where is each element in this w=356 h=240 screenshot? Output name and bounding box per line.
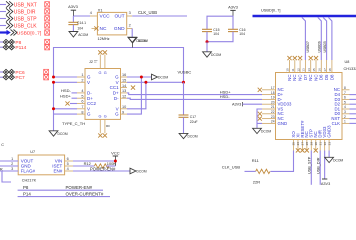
wire C15/C16 bottoms joined	[207, 32, 233, 42]
wire pin7 to vertical	[54, 108, 78, 110]
J2 pin 14 CC1	[110, 84, 127, 90]
resistor R12 100K	[84, 161, 117, 168]
wire bus tap USBD6	[318, 17, 322, 60]
svg-text:D-: D-	[87, 91, 92, 96]
svg-text:D5: D5	[324, 74, 329, 80]
wire	[0, 18, 6, 20]
wire G tie vertical (right)	[127, 77, 141, 114]
svg-text:14: 14	[122, 84, 126, 88]
svg-text:CLK_USB: CLK_USB	[138, 10, 157, 15]
svg-text:15: 15	[122, 79, 126, 83]
U8 top pin stubs	[290, 60, 332, 73]
svg-text:GND3: GND3	[327, 125, 332, 138]
bus stub	[0, 31, 7, 33]
svg-text:DCOM: DCOM	[261, 130, 271, 134]
svg-text:DCOM: DCOM	[333, 159, 343, 163]
port PC6	[0, 69, 49, 76]
wire P14 / OVER-CURRENT#	[18, 196, 110, 198]
U8 right pins	[342, 90, 350, 124]
svg-text:DCOM: DCOM	[158, 76, 168, 80]
ground DCOM (X1)	[128, 37, 147, 43]
svg-text:22uF: 22uF	[190, 120, 198, 124]
wire bus tap USBD8	[328, 17, 332, 60]
svg-text:12: 12	[296, 68, 300, 72]
svg-text:TYPE_C_TH: TYPE_C_TH	[62, 121, 85, 126]
wire CLK_USB to R11	[245, 170, 256, 172]
wire pin8 to vertical, down to ground	[54, 82, 78, 131]
no-connect X marks (U8 top NC pins)	[287, 56, 318, 60]
U7 pin 5 ISET stub	[65, 162, 73, 166]
svg-text:USB_DIR: USB_DIR	[317, 157, 321, 174]
svg-text:C14.1: C14.1	[77, 21, 86, 25]
svg-text:OVER-CURRENT#: OVER-CURRENT#	[66, 192, 104, 197]
svg-text:R: R	[0, 167, 3, 171]
svg-text:12MHz: 12MHz	[98, 37, 110, 41]
svg-text:11: 11	[291, 68, 295, 71]
svg-text:14: 14	[307, 68, 311, 72]
svg-text:3: 3	[11, 167, 13, 171]
U8 top pin names	[287, 74, 334, 81]
svg-text:G: G	[87, 112, 91, 117]
svg-text:17: 17	[271, 86, 275, 90]
port USB_DIR	[0, 8, 50, 15]
wire GND3 down	[328, 151, 330, 158]
ground DCOM (U8 left)	[253, 128, 272, 133]
svg-text:G: G	[115, 75, 119, 80]
port PC7	[0, 75, 49, 82]
svg-text:A3V3: A3V3	[321, 182, 330, 186]
wire HSD- left stub	[72, 92, 78, 94]
wire STP down	[310, 151, 312, 185]
svg-text:5: 5	[67, 162, 69, 166]
svg-text:15: 15	[312, 68, 316, 72]
wire	[0, 25, 6, 27]
svg-text:J2: J2	[89, 60, 93, 64]
wire VIN to VCC	[73, 160, 115, 162]
svg-text:4: 4	[344, 105, 346, 109]
svg-text:22: 22	[271, 110, 275, 114]
junction	[144, 81, 147, 84]
svg-text:USB_CLK: USB_CLK	[14, 24, 37, 30]
wire	[0, 4, 6, 6]
no-connect X on CC1	[131, 86, 135, 90]
wire left G/V tie vertical	[54, 48, 184, 83]
wire bus tap USBD7	[302, 17, 306, 60]
svg-text:23: 23	[271, 115, 275, 119]
ground DCOM (C15/C16)	[203, 52, 222, 57]
ground DCOM (C17)	[179, 133, 198, 138]
svg-text:2: 2	[11, 162, 13, 166]
junction	[52, 107, 55, 110]
wire	[0, 76, 3, 78]
wire U7 pin1 VOUT to edge	[0, 160, 18, 162]
svg-text:D-: D-	[114, 96, 119, 101]
wire G16 to DCOM arrow	[127, 76, 152, 78]
ground ACOM (under C14.1)	[69, 32, 88, 38]
power A3V3 (X1 supply)	[68, 4, 79, 16]
port P114	[0, 45, 50, 52]
ground DCOM (top rail)	[128, 38, 148, 48]
U8 bottom pin names	[291, 120, 332, 138]
svg-text:104: 104	[77, 26, 83, 30]
wire V tie vertical (right)	[127, 82, 146, 109]
svg-text:27: 27	[301, 142, 305, 146]
J2 pin 10 V	[116, 105, 127, 111]
svg-text:16: 16	[318, 68, 322, 72]
svg-text:P114: P114	[15, 45, 26, 51]
U8 top pin numbers	[286, 68, 332, 72]
U8 bottom pin stubs	[294, 140, 330, 151]
svg-text:104: 104	[239, 32, 245, 36]
power VCC	[111, 150, 120, 166]
wire HSD+ (D+ to U8)	[127, 93, 262, 95]
wire pin2 to vertical	[54, 81, 78, 83]
junction	[52, 81, 55, 84]
svg-text:DCOM: DCOM	[138, 39, 148, 43]
svg-text:3: 3	[344, 110, 346, 114]
wire A3V3 rail to C15/C16	[207, 16, 233, 29]
svg-text:V: V	[116, 80, 119, 85]
svg-text:USBD5: USBD5	[323, 41, 327, 52]
svg-text:17: 17	[323, 68, 327, 72]
svg-text:13: 13	[122, 89, 126, 93]
J2 pin 16 G	[115, 73, 127, 79]
svg-text:10: 10	[122, 105, 126, 109]
svg-text:USBD6: USBD6	[318, 41, 322, 52]
svg-text:DCOM: DCOM	[211, 53, 221, 57]
power A3V3 (U8 bottom)	[321, 179, 330, 186]
svg-text:16: 16	[122, 73, 126, 77]
J2 pin 8 G	[77, 110, 91, 116]
svg-text:USB_NXT: USB_NXT	[14, 3, 37, 9]
port USB_STP	[0, 15, 50, 22]
svg-text:3: 3	[129, 10, 131, 15]
ground DCOM (U8 bottom)	[325, 157, 344, 162]
svg-text:HSD-: HSD-	[220, 94, 230, 99]
J2 pin 1 G	[77, 73, 91, 79]
svg-text:POWER-EN#: POWER-EN#	[66, 185, 93, 190]
svg-text:VCC: VCC	[111, 150, 120, 155]
svg-text:USBD7: USBD7	[306, 41, 310, 52]
svg-text:CH1332: CH1332	[344, 67, 356, 71]
svg-text:POWER-EN#: POWER-EN#	[90, 167, 116, 172]
wire hook at left edge	[2, 171, 11, 182]
IC U7 CH217K	[18, 150, 64, 183]
junction	[140, 76, 143, 79]
svg-text:FLAG#: FLAG#	[21, 169, 36, 174]
capacitor C16 104	[228, 28, 246, 36]
net label A3V3 (VDD33)	[232, 102, 242, 106]
port USB_CLK	[0, 22, 50, 29]
no-connect X (U8 pin 22)	[258, 112, 262, 116]
svg-text:1: 1	[81, 73, 83, 77]
wire CLK_USB	[132, 15, 187, 17]
svg-text:P14: P14	[23, 192, 31, 197]
svg-text:USB_DIR: USB_DIR	[14, 10, 36, 16]
wire	[0, 46, 3, 48]
svg-text:V: V	[87, 80, 90, 85]
wire C17 to ground	[183, 117, 185, 133]
svg-text:D+: D+	[113, 91, 119, 96]
svg-text:1: 1	[344, 120, 346, 124]
no-connect X marks (U8 bottom)	[296, 148, 318, 152]
wire R12 to VCC	[106, 165, 115, 167]
svg-text:USBD[0..7]: USBD[0..7]	[261, 7, 280, 12]
svg-text:NC: NC	[292, 75, 297, 81]
svg-text:CLK: CLK	[332, 121, 340, 126]
J2 pin 15 V	[116, 79, 127, 85]
svg-text:C: C	[1, 143, 4, 147]
junction VUSBC	[182, 81, 185, 84]
svg-text:6: 6	[344, 96, 346, 100]
svg-text:2: 2	[81, 79, 83, 83]
svg-text:CC2: CC2	[87, 101, 96, 106]
svg-text:12: 12	[122, 94, 126, 98]
capacitor C17 22uF	[179, 115, 198, 124]
svg-text:G: G	[99, 71, 102, 75]
no-connect X marks (J2 top)	[98, 50, 107, 54]
svg-text:V: V	[116, 106, 119, 111]
J2 pin 9 G	[115, 110, 127, 116]
svg-text:U8: U8	[345, 60, 350, 64]
svg-text:P8: P8	[15, 40, 21, 46]
bus port USBD[0..7]	[0, 30, 50, 37]
svg-text:28: 28	[305, 142, 309, 146]
svg-text:6: 6	[81, 100, 83, 104]
svg-text:A3V3: A3V3	[68, 4, 79, 9]
svg-text:2: 2	[129, 22, 131, 27]
svg-text:G: G	[104, 115, 107, 119]
wire EN# POWER-EN#	[73, 170, 130, 172]
svg-text:18: 18	[271, 91, 275, 95]
svg-text:VCC: VCC	[100, 14, 111, 20]
junction	[52, 76, 55, 79]
svg-text:USBD[0..7]: USBD[0..7]	[17, 31, 42, 37]
svg-text:33: 33	[327, 142, 331, 146]
pin 2 stub X1 GND	[127, 22, 133, 28]
svg-text:X1: X1	[98, 8, 103, 12]
svg-text:G: G	[115, 112, 119, 117]
svg-text:7: 7	[81, 105, 83, 109]
J2 pin 7 V	[77, 105, 90, 111]
svg-text:9: 9	[122, 110, 124, 114]
svg-text:DCOM: DCOM	[137, 170, 147, 174]
svg-text:GND: GND	[114, 26, 125, 32]
wire U7 pin2 GND to edge	[0, 165, 18, 167]
svg-text:31: 31	[318, 142, 322, 146]
ground DCOM (arrow right, G pins)	[152, 74, 169, 80]
svg-text:1: 1	[11, 157, 13, 161]
svg-text:OUT: OUT	[114, 14, 124, 20]
svg-text:HSD-: HSD-	[61, 88, 71, 93]
wire down to ground	[206, 42, 208, 52]
U7 pin 6 VIN stub	[65, 157, 73, 161]
wire bus tap USBD5	[323, 17, 327, 60]
wire X1 GND down	[131, 28, 133, 37]
svg-text:13: 13	[302, 68, 306, 72]
svg-text:ACOM: ACOM	[78, 33, 88, 37]
wire	[0, 11, 6, 13]
port USB_NXT	[0, 1, 50, 8]
J2 pin 13 D+	[113, 89, 127, 95]
svg-text:24: 24	[271, 120, 275, 124]
svg-text:4: 4	[81, 89, 83, 93]
wire V15 to VUSBC	[127, 81, 184, 83]
pin NC stub X1 with no-connect X	[92, 26, 99, 30]
junction VIN/VCC	[114, 160, 117, 163]
wire CC2 stub with no-connect X	[70, 103, 77, 105]
no-connect X (U8 pin 23)	[258, 117, 262, 121]
U8 left pins	[262, 90, 276, 124]
svg-text:G: G	[104, 71, 107, 75]
wire VUSBC down to C17	[183, 82, 185, 115]
svg-text:D6: D6	[319, 74, 324, 80]
svg-text:22R: 22R	[253, 179, 260, 184]
svg-text:26: 26	[296, 142, 300, 146]
svg-text:8: 8	[344, 86, 346, 90]
U8 left pin names	[278, 87, 292, 126]
U7 pin 4 EN# stub	[65, 167, 73, 171]
svg-text:2: 2	[344, 115, 346, 119]
svg-text:7: 7	[344, 91, 346, 95]
svg-text:HSD+: HSD+	[60, 94, 71, 99]
wire HSD+ left stub	[72, 97, 78, 99]
no-connect X marks (J2 bottom)	[98, 133, 107, 137]
svg-text:CLK_USB: CLK_USB	[222, 165, 241, 170]
U8 left pin numbers	[271, 86, 275, 124]
svg-text:6: 6	[67, 157, 69, 161]
svg-text:4: 4	[67, 167, 69, 171]
wire	[0, 41, 3, 43]
svg-text:CH217K: CH217K	[22, 178, 37, 182]
svg-text:G: G	[99, 115, 102, 119]
J2 pin 12 D-	[114, 94, 127, 100]
svg-text:USB_STP: USB_STP	[14, 17, 37, 23]
svg-text:D+: D+	[87, 96, 93, 101]
U8 right pin numbers	[344, 86, 346, 124]
svg-text:NC: NC	[313, 75, 318, 81]
svg-text:USB_STP: USB_STP	[308, 156, 312, 174]
wire U7 pin3 FLAG# to edge	[0, 170, 18, 172]
pin 4 stub X1	[90, 10, 98, 16]
J2 pin 6 CC2	[77, 100, 96, 106]
pin 3 stub X1 OUT	[127, 10, 133, 16]
wire VS/GND to ground	[257, 109, 262, 128]
svg-text:G: G	[87, 75, 91, 80]
svg-text:NC: NC	[100, 26, 107, 32]
svg-text:100K: 100K	[107, 161, 116, 166]
bus USBD[0..7]	[253, 7, 356, 16]
power A3V3 (C15/C16)	[228, 5, 239, 17]
wire ISET to R12	[73, 165, 94, 167]
svg-text:5: 5	[344, 100, 346, 104]
IC U8 CH133X	[276, 60, 356, 140]
svg-text:GND: GND	[278, 121, 288, 126]
svg-text:NC: NC	[298, 75, 303, 81]
svg-text:C17: C17	[190, 115, 196, 119]
svg-text:20: 20	[271, 100, 275, 104]
capacitor C14.1 104	[68, 16, 86, 32]
port P8	[0, 39, 50, 46]
svg-text:NC: NC	[308, 75, 313, 81]
svg-text:R11: R11	[252, 158, 260, 163]
wires U8 right to edge	[350, 95, 356, 124]
svg-text:DCOM: DCOM	[58, 132, 68, 136]
J2 pin 2 V	[77, 79, 90, 85]
wire DIR down	[319, 151, 321, 185]
svg-text:CC1: CC1	[110, 85, 119, 90]
svg-text:R12: R12	[84, 161, 91, 166]
J2 bottom shield pins G G	[99, 115, 111, 134]
svg-text:VUSBC: VUSBC	[178, 69, 192, 74]
svg-text:29: 29	[310, 142, 314, 146]
svg-text:21: 21	[271, 105, 275, 109]
U8 bottom pin numbers	[292, 142, 332, 146]
J2 pin 4 D-	[77, 89, 92, 95]
svg-text:A3V3: A3V3	[232, 102, 241, 106]
svg-text:5: 5	[81, 94, 83, 98]
svg-text:19: 19	[271, 96, 275, 100]
svg-text:8: 8	[81, 110, 83, 114]
svg-text:18: 18	[328, 68, 332, 72]
wire HSD- (D- to U8)	[127, 98, 262, 99]
wire A3V3 to VDD33	[243, 103, 263, 105]
no-connect X (U8 pin 17)	[258, 88, 262, 92]
svg-text:PC6: PC6	[15, 70, 25, 76]
svg-text:PC7: PC7	[15, 75, 25, 81]
U8 right pin names	[331, 87, 340, 126]
wire XO to R11	[271, 151, 294, 172]
svg-text:NC: NC	[287, 75, 292, 81]
svg-text:EN#: EN#	[54, 169, 63, 174]
wire VD33 down to A3V3	[324, 151, 326, 180]
svg-text:U7: U7	[30, 150, 35, 154]
oscillator X1 12MHz	[97, 8, 126, 41]
svg-text:30: 30	[314, 142, 318, 146]
svg-text:DCOM: DCOM	[188, 135, 198, 139]
J2 pin 5 D+	[77, 94, 93, 100]
ground DCOM (arrow right, EN#)	[130, 168, 147, 174]
svg-text:P8: P8	[23, 185, 29, 190]
capacitor C15 104	[202, 28, 220, 36]
svg-text:10: 10	[286, 68, 290, 72]
svg-text:32: 32	[323, 142, 327, 146]
resistor R11 22R	[252, 158, 270, 185]
connector J2 TYPE_C_TH	[62, 60, 121, 126]
wire	[0, 71, 3, 73]
wire P8 / POWER-EN#	[18, 189, 103, 191]
ground DCOM (J2 left)	[49, 131, 68, 136]
J2 top shield pins G G	[99, 55, 107, 75]
junction	[206, 40, 209, 43]
svg-text:D7: D7	[303, 74, 308, 80]
wire A3V3 to X1 pin 4	[73, 15, 90, 17]
svg-text:25: 25	[292, 142, 296, 146]
svg-text:D8: D8	[329, 74, 334, 80]
svg-text:A3V3: A3V3	[228, 5, 239, 10]
svg-text:R≡: R≡	[106, 124, 110, 128]
svg-text:104: 104	[213, 32, 219, 36]
svg-text:V: V	[87, 106, 90, 111]
